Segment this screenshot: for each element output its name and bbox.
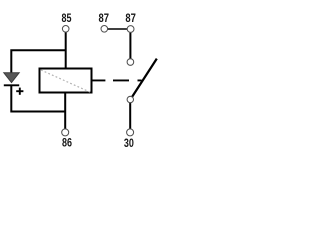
svg-text:87: 87 (98, 13, 109, 25)
svg-text:86: 86 (62, 138, 72, 150)
svg-text:30: 30 (124, 138, 134, 150)
svg-text:85: 85 (62, 13, 72, 25)
svg-text:87: 87 (125, 13, 136, 25)
